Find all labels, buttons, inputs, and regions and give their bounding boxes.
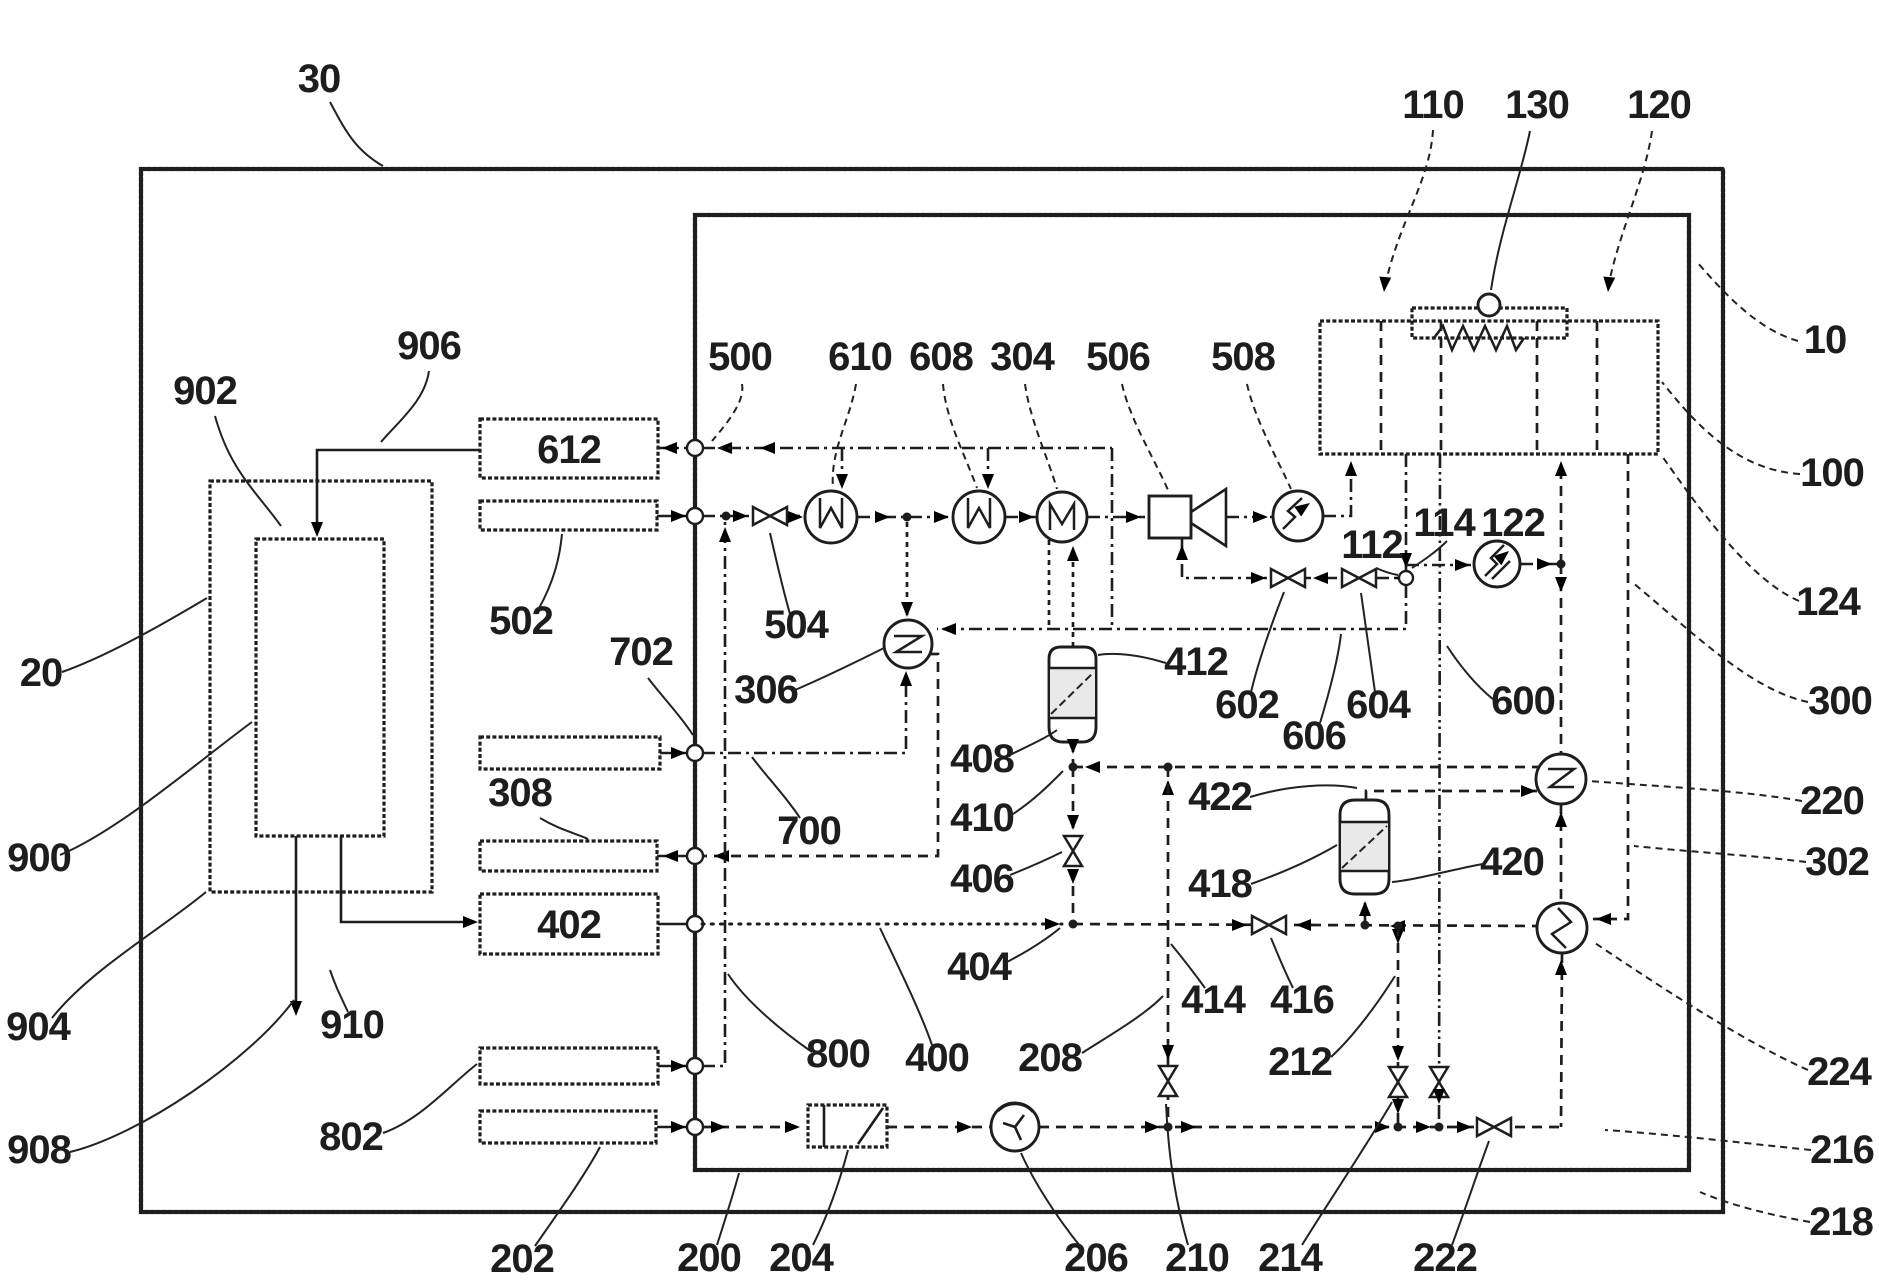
heater 608 <box>953 491 1005 543</box>
svg-text:224: 224 <box>1807 1050 1872 1094</box>
drop to 220 <box>1560 564 1563 754</box>
heat exchanger 220 <box>1536 754 1586 804</box>
stub 402 to port <box>658 923 688 926</box>
pipe vessel 412 to 304 <box>1072 547 1075 647</box>
interface bar 702 <box>480 737 660 769</box>
junction 212/202 <box>1394 1123 1403 1132</box>
port 502 <box>687 508 703 524</box>
svg-text:508: 508 <box>1211 335 1275 379</box>
line 114/122 from node to stack <box>1406 564 1474 567</box>
arrow into port 500 <box>717 442 732 454</box>
svg-text:208: 208 <box>1018 1036 1082 1080</box>
svg-text:222: 222 <box>1413 1236 1477 1280</box>
recuperator 306 <box>884 620 932 668</box>
stub 802 to port <box>658 1065 688 1068</box>
svg-text:300: 300 <box>1808 679 1872 723</box>
heat exchanger 122 <box>1474 541 1520 587</box>
svg-text:606: 606 <box>1282 714 1346 758</box>
svg-text:800: 800 <box>806 1032 870 1076</box>
svg-text:420: 420 <box>1480 840 1544 884</box>
stub 502 to port <box>657 515 688 518</box>
stub 612 to port <box>658 447 688 450</box>
controller box 402 <box>480 894 658 954</box>
arrow 502 feed <box>671 510 686 522</box>
loop downcomer 1112 <box>1111 448 1114 629</box>
svg-text:910: 910 <box>320 1003 384 1047</box>
junction 404 <box>1069 920 1078 929</box>
svg-text:408: 408 <box>950 737 1014 781</box>
wire 608 to 304 <box>1005 516 1037 519</box>
svg-text:220: 220 <box>1800 779 1864 823</box>
inner stack rectangle 910 <box>256 539 384 836</box>
water line 406 <box>1072 767 1075 924</box>
wire 508 to stack inlet <box>1323 466 1351 516</box>
svg-text:214: 214 <box>1258 1236 1323 1280</box>
valve 504 <box>753 507 787 525</box>
junction to 800 riser <box>722 512 731 521</box>
module box 902/900 outline <box>210 481 432 892</box>
heat stub into 610 <box>841 448 844 480</box>
fuel feed riser 800 <box>702 521 725 1066</box>
svg-text:302: 302 <box>1805 840 1869 884</box>
stack cell divider <box>1596 321 1599 454</box>
svg-text:904: 904 <box>6 1005 71 1049</box>
port 202 <box>687 1119 703 1135</box>
svg-text:114: 114 <box>1413 501 1476 545</box>
svg-text:404: 404 <box>947 945 1012 989</box>
wire 304 to turbine <box>1087 516 1145 519</box>
valve on line 300 <box>1430 1067 1448 1097</box>
wire 610 to 608 <box>857 516 953 519</box>
stack outlet wire 908 <box>295 836 298 1004</box>
svg-text:218: 218 <box>1809 1200 1873 1244</box>
junction 410 <box>1069 763 1078 772</box>
svg-text:604: 604 <box>1346 683 1411 727</box>
water row 404 dotted <box>702 923 1062 926</box>
arrow into 612 <box>662 442 677 454</box>
svg-text:500: 500 <box>708 335 772 379</box>
turbine drain wire 112 <box>1182 538 1399 578</box>
controller box 612 <box>480 419 658 478</box>
svg-text:504: 504 <box>764 603 829 647</box>
svg-text:416: 416 <box>1270 978 1334 1022</box>
svg-text:902: 902 <box>173 369 237 413</box>
heat exchanger 224 <box>1537 903 1587 953</box>
interface bar 502 <box>480 501 657 530</box>
recirc riser 208 <box>1167 767 1170 1127</box>
port 500 <box>687 440 703 456</box>
junction 208/202 <box>1164 1123 1173 1132</box>
306 bottom feed from 702 <box>702 674 906 753</box>
svg-text:120: 120 <box>1627 83 1691 127</box>
svg-text:204: 204 <box>769 1236 834 1280</box>
junction 212 top <box>1394 922 1403 931</box>
outer enclosure box 30 <box>141 169 1723 1212</box>
arrow into 306 <box>941 623 956 635</box>
recirc riser 212 <box>1397 926 1400 1127</box>
valve 602 <box>1271 569 1305 587</box>
svg-text:30: 30 <box>298 57 341 101</box>
valve 222 <box>1477 1118 1511 1136</box>
svg-text:414: 414 <box>1181 978 1246 1022</box>
svg-text:502: 502 <box>489 599 553 643</box>
svg-text:506: 506 <box>1086 335 1150 379</box>
stub 308 to port <box>657 855 688 858</box>
main process row wire <box>702 515 753 518</box>
svg-text:610: 610 <box>828 335 892 379</box>
arrow into 402 <box>463 916 478 928</box>
fuel cell stack 100 <box>1320 321 1658 454</box>
leader for 30 <box>330 102 383 166</box>
svg-text:702: 702 <box>609 630 673 674</box>
turbine 506 <box>1149 496 1191 538</box>
pipe 304 to loop <box>1048 540 1051 629</box>
svg-text:422: 422 <box>1188 775 1252 819</box>
arrow on 500 line <box>760 442 775 454</box>
interface bar 202 <box>480 1111 656 1143</box>
stack cell divider <box>1536 321 1539 454</box>
svg-text:112: 112 <box>1341 523 1403 567</box>
wire 220 to 224 <box>1560 804 1563 903</box>
junction 208 riser top <box>1164 763 1173 772</box>
node 112 port <box>1399 571 1413 585</box>
anode downcomer from stack <box>1405 454 1408 571</box>
interface bar 308 <box>480 841 657 871</box>
svg-text:612: 612 <box>537 428 601 472</box>
wire turbine to 508 <box>1226 516 1272 519</box>
heater 508 <box>1273 491 1323 541</box>
riser into stack cathode <box>1560 466 1563 564</box>
svg-text:200: 200 <box>677 1236 741 1280</box>
svg-text:206: 206 <box>1064 1236 1128 1280</box>
svg-text:906: 906 <box>397 324 461 368</box>
svg-text:216: 216 <box>1810 1128 1874 1172</box>
reformer vessel 412 <box>1049 647 1096 742</box>
svg-text:210: 210 <box>1165 1236 1229 1280</box>
svg-text:402: 402 <box>537 903 601 947</box>
junction to vessel 418 <box>1361 921 1370 930</box>
arrow 802 feed <box>671 1060 686 1072</box>
svg-text:122: 122 <box>1481 501 1545 545</box>
stub 702 to port <box>660 752 688 755</box>
blower outlet row <box>1039 1126 1561 1129</box>
riser from 202 row into 224 <box>1561 953 1562 1127</box>
water tank 418 <box>1340 800 1389 894</box>
vessel 412 outlet <box>1072 742 1075 767</box>
stack exhaust line 302 <box>1593 454 1628 919</box>
blower 206 <box>991 1103 1039 1151</box>
svg-text:10: 10 <box>1804 318 1847 362</box>
valve 416 <box>1252 916 1286 934</box>
heat stub into 608 <box>987 448 990 480</box>
svg-text:304: 304 <box>990 335 1055 379</box>
svg-text:418: 418 <box>1188 862 1252 906</box>
306 condensate out to 308 <box>702 654 938 856</box>
svg-text:406: 406 <box>950 857 1014 901</box>
valve 210 <box>1159 1066 1177 1096</box>
svg-text:410: 410 <box>950 796 1014 840</box>
stack offgas line 300 <box>1439 454 1440 1127</box>
svg-text:608: 608 <box>909 335 973 379</box>
filter 204 <box>808 1105 887 1147</box>
svg-text:600: 600 <box>1491 679 1555 723</box>
svg-text:130: 130 <box>1505 83 1569 127</box>
port 802 <box>687 1058 703 1074</box>
svg-text:802: 802 <box>319 1115 383 1159</box>
heat exchanger 304 <box>1037 492 1087 542</box>
junction to 306 <box>903 513 912 522</box>
loop return line 606 <box>937 585 1406 629</box>
svg-text:700: 700 <box>777 809 841 853</box>
junction 300/202 <box>1435 1123 1444 1132</box>
svg-text:900: 900 <box>7 836 71 880</box>
svg-text:212: 212 <box>1268 1040 1332 1084</box>
feed into vessel 418 <box>1364 903 1367 925</box>
vessel 418 vapour line 422 <box>1366 791 1539 800</box>
stack cell divider <box>1440 321 1443 454</box>
valve 214 <box>1389 1067 1407 1097</box>
load terminal circle <box>1478 294 1500 316</box>
water row continues to 224 <box>1073 924 1538 926</box>
load resistor <box>1434 326 1524 350</box>
svg-text:110: 110 <box>1402 83 1464 127</box>
svg-text:602: 602 <box>1215 683 1279 727</box>
condensate return row from 220 <box>1073 766 1539 769</box>
svg-text:412: 412 <box>1164 640 1228 684</box>
svg-text:20: 20 <box>20 651 63 695</box>
valve 604 <box>1342 569 1376 587</box>
arrow into stack top <box>311 522 323 537</box>
svg-text:400: 400 <box>905 1036 969 1080</box>
exhaust return line 500 (top dash-dot) <box>702 447 1112 450</box>
svg-text:100: 100 <box>1800 451 1864 495</box>
arrow 202 feed <box>671 1121 686 1133</box>
air inlet row 202 <box>702 1126 804 1129</box>
wire from 612 to stack (906) <box>317 450 480 528</box>
valve 406 <box>1064 836 1082 866</box>
heater 610 <box>805 491 857 543</box>
wire stack to 402 <box>341 836 470 922</box>
arrow 702 feed <box>671 747 686 759</box>
svg-text:202: 202 <box>490 1237 554 1281</box>
inner system boundary box 200 <box>695 215 1689 1170</box>
electrical load box 130 <box>1412 308 1567 338</box>
svg-text:908: 908 <box>7 1128 71 1172</box>
svg-text:124: 124 <box>1796 580 1861 624</box>
stub 202 to port <box>657 1126 688 1129</box>
arrow outlet down <box>290 1001 302 1016</box>
port 308 <box>687 848 703 864</box>
interface bar 802 <box>480 1048 658 1084</box>
wire valve to 610 <box>787 515 805 518</box>
wire filter to blower <box>887 1126 991 1129</box>
svg-text:306: 306 <box>734 668 798 712</box>
port 702 <box>687 745 703 761</box>
arrow into 308 <box>663 850 678 862</box>
stack cell divider <box>1380 321 1383 454</box>
306 top feed from main row <box>906 522 909 615</box>
svg-text:308: 308 <box>488 771 552 815</box>
port 402 <box>687 916 703 932</box>
wire 122 to junction <box>1520 563 1561 566</box>
